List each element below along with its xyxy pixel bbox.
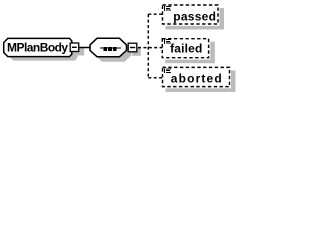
wire: dashed connector to failed (through trunk) bbox=[138, 47, 162, 49]
expand button minus line bbox=[72, 46, 77, 48]
element passed box (optional, dashed) bbox=[163, 5, 219, 24]
svg-text:passed: passed bbox=[173, 9, 216, 23]
wire: solid connector element to sequence bbox=[79, 47, 90, 49]
element MPlanBody box bbox=[4, 38, 72, 56]
wire: dashed branch to passed bbox=[148, 13, 162, 15]
collapse button after sequence bbox=[128, 43, 137, 52]
svg-text:MPlanBody: MPlanBody bbox=[7, 40, 68, 54]
sequence compositor octagon bbox=[90, 38, 127, 56]
svg-text:failed: failed bbox=[170, 41, 202, 55]
element aborted box (optional, dashed) bbox=[163, 67, 230, 86]
collapse button after sequence shadow bbox=[132, 47, 141, 56]
element failed text-content icon bbox=[164, 39, 171, 44]
element failed shadow bbox=[165, 42, 215, 64]
sequence symbol dots bbox=[103, 47, 116, 51]
element failed box (optional, dashed) bbox=[162, 39, 208, 58]
wire: dashed branch to aborted bbox=[148, 77, 162, 79]
element MPlanBody shadow bbox=[9, 42, 84, 60]
element passed text-content icon bbox=[164, 6, 171, 11]
element aborted shadow bbox=[166, 70, 236, 92]
sequence compositor shadow bbox=[95, 43, 132, 61]
sequence symbol line bbox=[100, 48, 121, 49]
svg-text:aborted: aborted bbox=[171, 72, 223, 86]
wire: dashed trunk vertical bbox=[147, 14, 149, 78]
element passed shadow bbox=[166, 8, 225, 30]
expand button on MPlanBody bbox=[70, 43, 79, 52]
collapse button minus line bbox=[130, 47, 135, 49]
element aborted text-content icon bbox=[164, 68, 171, 73]
